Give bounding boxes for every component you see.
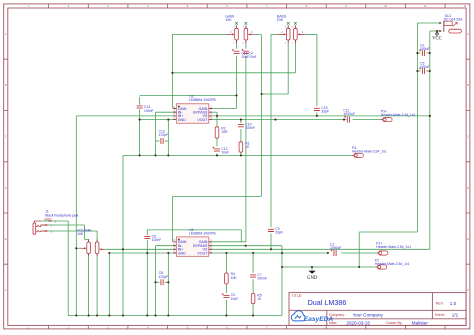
svg-text:Header-Male-2.54_1x1: Header-Male-2.54_1x1 bbox=[375, 262, 410, 266]
svg-text:10uF: 10uF bbox=[221, 151, 229, 155]
svg-text:10K: 10K bbox=[277, 18, 284, 22]
svg-text:VCC: VCC bbox=[432, 37, 442, 42]
svg-text:100nF: 100nF bbox=[144, 109, 154, 113]
svg-text:100uF: 100uF bbox=[420, 65, 430, 69]
svg-text:10R: 10R bbox=[221, 130, 228, 134]
svg-text:10: 10 bbox=[257, 297, 261, 301]
svg-text:D: D bbox=[467, 187, 469, 190]
svg-text:LM386M-1/NOPB: LM386M-1/NOPB bbox=[189, 231, 216, 235]
svg-text:GND: GND bbox=[307, 276, 318, 281]
svg-text:10uF10uF: 10uF10uF bbox=[241, 55, 256, 59]
svg-text:1000uF: 1000uF bbox=[343, 112, 355, 116]
svg-text:GND: GND bbox=[178, 118, 186, 122]
svg-text:1.0: 1.0 bbox=[450, 301, 457, 306]
svg-text:100uF: 100uF bbox=[420, 47, 430, 51]
svg-text:LM386M-1/NOPB: LM386M-1/NOPB bbox=[189, 98, 216, 102]
svg-text:C: C bbox=[5, 136, 7, 139]
svg-text:REV:: REV: bbox=[436, 302, 444, 306]
svg-text:470pF: 470pF bbox=[159, 133, 169, 137]
svg-text:D: D bbox=[5, 187, 7, 190]
svg-text:Sheet:: Sheet: bbox=[435, 313, 445, 317]
svg-text:GND: GND bbox=[44, 217, 52, 221]
svg-text:TITLE:: TITLE: bbox=[292, 294, 303, 298]
svg-text:Malister: Malister bbox=[412, 320, 429, 325]
svg-text:Header-Male-2.54_1x1: Header-Male-2.54_1x1 bbox=[376, 245, 411, 249]
svg-text:VOUT: VOUT bbox=[197, 118, 208, 122]
svg-text:10K: 10K bbox=[77, 232, 84, 236]
svg-text:C: C bbox=[467, 136, 469, 139]
svg-text:470pF: 470pF bbox=[159, 275, 169, 279]
svg-text:DC-014-20A: DC-014-20A bbox=[444, 17, 464, 21]
svg-text:10K: 10K bbox=[225, 18, 232, 22]
svg-text:33pF: 33pF bbox=[275, 231, 283, 235]
svg-text:10K: 10K bbox=[231, 276, 238, 280]
svg-text:Header-Male-2.54_1x1: Header-Male-2.54_1x1 bbox=[352, 150, 387, 154]
svg-text:Header-Male-2.54_1x1: Header-Male-2.54_1x1 bbox=[381, 113, 416, 117]
svg-text:10uF: 10uF bbox=[231, 297, 239, 301]
svg-text:2020-03-15: 2020-03-15 bbox=[346, 320, 370, 325]
svg-text:Your Company: Your Company bbox=[353, 313, 384, 318]
svg-text:100nF: 100nF bbox=[257, 276, 267, 280]
svg-text:100nF: 100nF bbox=[245, 126, 255, 130]
svg-text:EasyEDA: EasyEDA bbox=[304, 316, 334, 323]
svg-text:100nF: 100nF bbox=[152, 238, 162, 242]
svg-text:1/1: 1/1 bbox=[452, 313, 459, 318]
svg-text:33pF: 33pF bbox=[321, 110, 329, 114]
svg-text:GND: GND bbox=[178, 251, 186, 255]
svg-text:10: 10 bbox=[245, 145, 249, 149]
svg-text:Dual LM386: Dual LM386 bbox=[308, 298, 347, 307]
svg-text:Drawn By:: Drawn By: bbox=[386, 321, 402, 325]
svg-text:VOUT: VOUT bbox=[197, 251, 208, 255]
svg-text:1000uF: 1000uF bbox=[330, 246, 342, 250]
